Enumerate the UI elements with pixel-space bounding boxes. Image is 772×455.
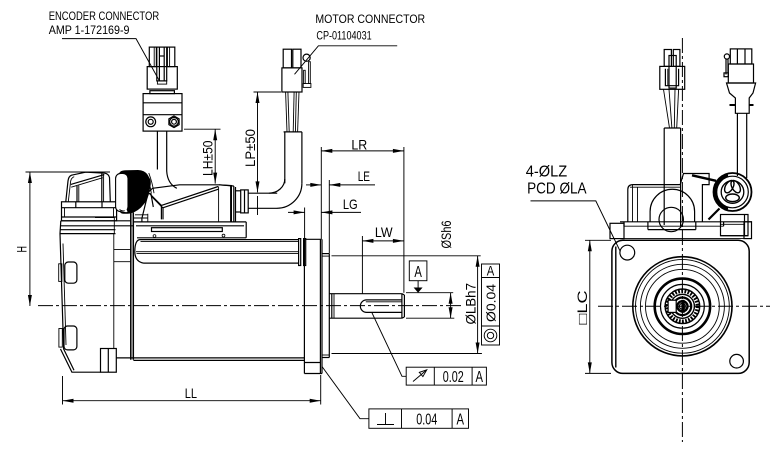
- dark crescent left of grommet: [715, 175, 728, 209]
- arch: [650, 189, 695, 222]
- base plate: [620, 221, 752, 223]
- encoder connector front view: [724, 49, 756, 113]
- runout frame 0.02: [372, 312, 487, 385]
- dim LH: [184, 129, 221, 183]
- dim LR: [321, 147, 404, 293]
- dim LC: [585, 240, 611, 373]
- svg-text:LG: LG: [343, 196, 358, 212]
- svg-text:ENCODER CONNECTOR: ENCODER CONNECTOR: [49, 9, 160, 23]
- keyway: [360, 300, 402, 313]
- encoder connector side view: [143, 47, 182, 131]
- conduit end rings: [299, 239, 301, 266]
- centerline front view vertical: [681, 38, 683, 442]
- grommet cylinder front: [692, 173, 752, 239]
- leader 4-OLZ: [531, 201, 621, 252]
- rear encoder cover bump: [66, 172, 111, 201]
- leader encoder connector: [62, 39, 160, 81]
- cover right wall (white D): [116, 173, 128, 211]
- rear housing left edge: [59, 218, 134, 373]
- front housing body: [620, 174, 752, 232]
- svg-text:Ø0.04: Ø0.04: [483, 284, 498, 322]
- boot lower shelf: [134, 214, 148, 222]
- rear internal bands: [60, 229, 115, 231]
- leader motor connector: [295, 46, 398, 75]
- rear collar band: [62, 202, 117, 221]
- collar bottom lines: [61, 220, 131, 222]
- body: [728, 64, 753, 83]
- svg-text:LW: LW: [375, 224, 393, 240]
- rubber boot (black): [119, 170, 151, 214]
- perpendicularity frame 0.04: [322, 367, 469, 429]
- svg-text:LH±50: LH±50: [200, 140, 216, 176]
- motor body bottom: [116, 358, 304, 361]
- concentricity frame vertical: [482, 264, 500, 345]
- svg-text:H: H: [13, 246, 29, 253]
- perp symbol: [377, 424, 394, 426]
- conduit tail behind strip: [114, 249, 131, 251]
- upper body: [147, 67, 177, 90]
- prong left: [149, 47, 156, 67]
- encoder cable front: [737, 113, 746, 178]
- shaft keyway detail front: [668, 300, 687, 313]
- svg-text:LE: LE: [358, 168, 370, 184]
- svg-text:A: A: [457, 411, 465, 428]
- svg-text:A: A: [475, 369, 483, 386]
- housing base plate: [133, 222, 246, 238]
- cable gland: [241, 190, 249, 213]
- centerline side view: [38, 305, 462, 307]
- front flange side view: [304, 239, 322, 373]
- motor cable elbow: [236, 132, 302, 213]
- datum A box: [409, 261, 427, 293]
- centerline front view horizontal: [598, 305, 770, 307]
- clip upper: [65, 262, 77, 283]
- bolt hole bottom-right: [730, 354, 744, 368]
- svg-text:LL: LL: [185, 385, 197, 401]
- svg-text:0.02: 0.02: [443, 369, 464, 386]
- svg-text:ØLBh7: ØLBh7: [464, 283, 479, 325]
- svg-text:A: A: [487, 263, 495, 278]
- front housing left block: [610, 223, 624, 238]
- 3-lobe pattern: [723, 179, 743, 202]
- prong right: [167, 47, 175, 67]
- screw right hex: [169, 116, 179, 128]
- motor wires front: [664, 89, 679, 128]
- svg-text:PCD ØLA: PCD ØLA: [527, 181, 587, 198]
- boot white curl: [117, 206, 128, 212]
- boss / pilot: [322, 254, 329, 358]
- shaft end face: [401, 294, 403, 319]
- dim OS: [406, 293, 454, 319]
- screw left: [146, 117, 156, 127]
- svg-text:LP±50: LP±50: [242, 129, 258, 167]
- housing corner curves right of boot: [146, 174, 151, 194]
- dim LP: [254, 92, 282, 215]
- connector housing on top: [142, 185, 236, 222]
- latch ear: [303, 54, 310, 61]
- motor wires: [286, 92, 299, 132]
- bracket below: [721, 215, 749, 236]
- body: [282, 68, 302, 92]
- neck insert: [150, 91, 175, 94]
- cable conduit rib on body: [135, 239, 306, 266]
- svg-text:ØSh6: ØSh6: [438, 220, 454, 248]
- shaft: [329, 294, 404, 319]
- dim LE: [306, 180, 375, 253]
- dim LG: [288, 208, 361, 239]
- junction strip (dark double line): [131, 213, 134, 360]
- svg-text:A: A: [414, 264, 422, 281]
- dim H: [26, 172, 111, 306]
- svg-text:4-ØLZ: 4-ØLZ: [526, 164, 568, 181]
- svg-text:MOTOR CONNECTOR: MOTOR CONNECTOR: [315, 12, 425, 26]
- dim LL: [63, 375, 321, 405]
- svg-text:CP-01104031: CP-01104031: [316, 28, 372, 42]
- clip lower: [64, 326, 77, 350]
- lower body: [143, 94, 182, 132]
- svg-text:AMP 1-172169-9: AMP 1-172169-9: [49, 23, 130, 37]
- cable hole: [659, 207, 683, 231]
- dim OLB: [332, 256, 482, 354]
- bottom clip block: [101, 349, 117, 373]
- motor connector side view: [282, 49, 311, 92]
- dim LW: [362, 236, 404, 294]
- svg-text:LR: LR: [351, 137, 367, 153]
- svg-text:□LC: □LC: [575, 290, 590, 324]
- runout arrow symbol: [413, 371, 426, 382]
- neck slot: [157, 81, 166, 84]
- latch: [724, 54, 729, 59]
- svg-text:0.04: 0.04: [416, 411, 437, 428]
- pilot boss circles: [633, 257, 732, 356]
- motor connector front view: [660, 50, 685, 90]
- center blade: [157, 47, 167, 81]
- motor cable front: [664, 128, 680, 226]
- encoder cable lower part: [156, 131, 158, 169]
- boot: [727, 83, 756, 113]
- front view flange square: [612, 239, 750, 374]
- bolt hole top-left: [620, 245, 635, 260]
